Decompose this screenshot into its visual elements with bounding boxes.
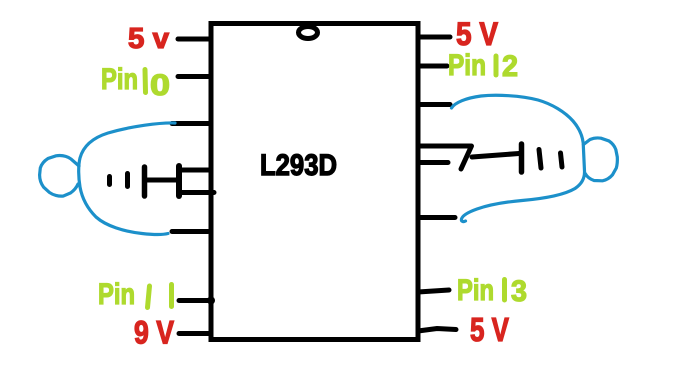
wire Pin 11 [179,298,212,303]
wire left bracket top [180,168,211,173]
svg-text:Pin: Pin [448,49,486,82]
left motor tick 1 [107,177,112,185]
left motor terminal lead [146,178,177,183]
wire Pin 12 [418,64,447,69]
motor M1 body outline (blue) [79,123,175,234]
wire left motor bottom lead [172,229,208,234]
right motor tick 2 [561,153,563,167]
wire left motor top lead [172,121,211,126]
wire right lower lead [418,160,448,165]
svg-text:5 V: 5 V [470,311,509,348]
wire Pin10 [178,74,211,79]
right motor diagonal stroke [461,146,472,169]
wire 5V top-right [418,35,450,40]
svg-text:2: 2 [502,50,518,83]
right motor terminal lead [472,154,519,158]
wire right motor bottom lead [418,215,455,220]
left bracket vertical bar [176,166,182,196]
motor M2 body outline (blue) [452,95,585,221]
wire left bracket bottom [180,190,214,195]
wire 5v top-left [178,37,211,42]
left motor terminal tall bar [142,167,148,196]
svg-text:9 V: 9 V [134,315,175,351]
svg-text:5 V: 5 V [456,16,499,52]
wire 9V [179,331,211,336]
IC U1 body (L293D) [211,24,418,340]
right motor tick 1 [539,150,541,169]
svg-text:L293D: L293D [260,149,337,182]
svg-text:Pin: Pin [101,63,138,96]
svg-text:3: 3 [511,275,527,308]
motor M2 shaft knob (blue) [584,138,618,181]
svg-text:0: 0 [150,69,170,102]
wire Pin 13 [418,290,449,292]
svg-text:5 v: 5 v [128,23,169,55]
IC pin-1 notch [299,27,318,39]
svg-text:Pin: Pin [457,274,494,307]
left motor tick 2 [125,174,130,187]
svg-text:Pin: Pin [98,278,135,311]
right motor terminal tall bar [519,144,525,172]
wire Pin 11 end blob [207,297,215,305]
wire right upper lead [418,144,470,149]
wire right motor top lead [418,102,450,107]
wire 5V bottom-right [418,329,456,332]
motor M1 shaft knob (blue) [40,156,79,197]
